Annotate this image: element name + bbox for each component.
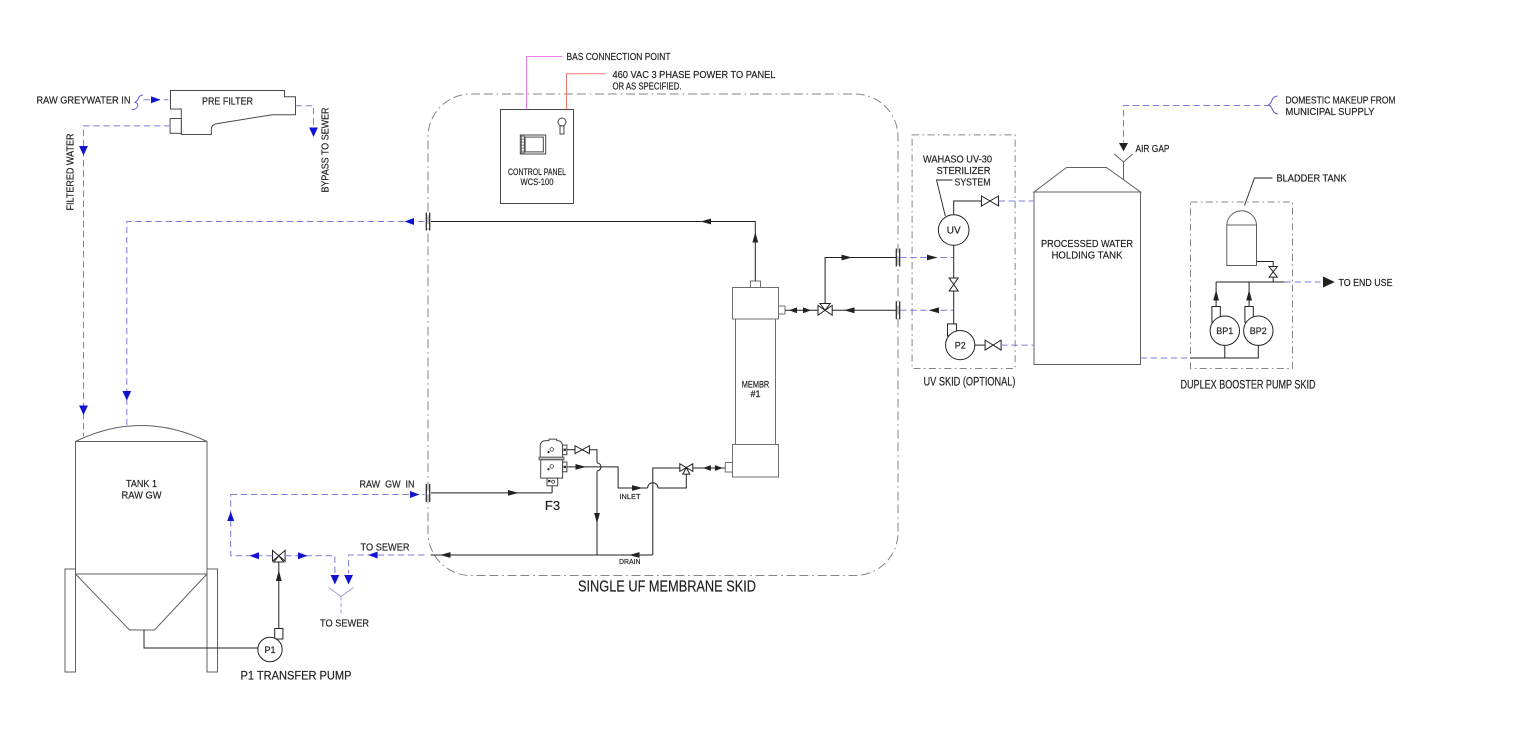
pipe break symbol at raw greywater inlet <box>132 95 143 110</box>
svg-text:DOMESTIC MAKEUP FROM: DOMESTIC MAKEUP FROM <box>1286 96 1396 107</box>
label: DOMESTIC MAKEUP FROM MUNICIPAL SUPPLY <box>1286 96 1396 119</box>
processed water holding tank <box>1034 168 1141 365</box>
valve: UV line check valve (vertical) <box>949 278 958 291</box>
wire: valve to tank return (blue dashed) <box>227 495 272 560</box>
svg-text:DUPLEX BOOSTER PUMP SKID: DUPLEX BOOSTER PUMP SKID <box>1181 380 1316 392</box>
svg-text:SINGLE UF MEMBRANE SKID: SINGLE UF MEMBRANE SKID <box>578 579 756 596</box>
pre-filter body <box>170 91 295 135</box>
svg-text:MEMBR: MEMBR <box>742 380 770 390</box>
wire: 460VAC power (red) <box>567 74 606 110</box>
wire: drain header <box>431 552 653 558</box>
svg-text:P1 TRANSFER PUMP: P1 TRANSFER PUMP <box>241 671 352 683</box>
wire: P2 discharge <box>975 344 985 346</box>
wire: filtered water to tank (blue dashed) <box>79 126 170 437</box>
label: BLADDER TANK with leader <box>1245 174 1347 206</box>
wire: BP1 riser <box>1212 282 1220 322</box>
wire: drain from inlet valve <box>653 468 680 555</box>
tank T1 raw greywater <box>65 426 218 673</box>
svg-text:WCS-100: WCS-100 <box>521 177 554 187</box>
air gap funnel on tank <box>1114 154 1133 180</box>
svg-text:DRAIN: DRAIN <box>619 557 641 566</box>
label: TO END USE <box>1339 278 1393 289</box>
label: P1 TRANSFER PUMP <box>241 671 352 683</box>
valve: flush isolation valve <box>575 446 589 454</box>
svg-text:FILTERED WATER: FILTERED WATER <box>66 134 77 211</box>
wire: holding tank to booster skid (blue dashed) <box>1141 357 1191 359</box>
wire: bypass to sewer (blue dashed) <box>296 106 318 137</box>
wire: UV vertical pipe <box>953 245 955 331</box>
wire: F3 bottom output (inlet line) <box>567 464 686 491</box>
svg-text:HOLDING TANK: HOLDING TANK <box>1052 251 1123 262</box>
wire: valve to sewer branch (blue dashed) <box>285 552 339 584</box>
label: UV SKID (OPTIONAL) <box>924 377 1016 389</box>
svg-text:PROCESSED WATER: PROCESSED WATER <box>1041 239 1133 250</box>
air gap arrow <box>1119 143 1128 151</box>
svg-text:OR AS SPECIFIED.: OR AS SPECIFIED. <box>613 82 682 93</box>
wire: flush line down to drain <box>589 450 601 555</box>
pump BP2 <box>1244 316 1273 345</box>
arrow: to end use <box>1323 277 1335 288</box>
flange at backwash return <box>896 301 899 319</box>
svg-text:TO SEWER: TO SEWER <box>361 543 410 554</box>
svg-text:TO END USE: TO END USE <box>1339 278 1393 289</box>
wire: backwash out of UV skid (blue dashed) <box>900 307 954 313</box>
svg-text:STERILIZER: STERILIZER <box>937 166 991 177</box>
label: BYPASS TO SEWER (vertical) <box>321 108 332 193</box>
label: SINGLE UF MEMBRANE SKID <box>578 579 756 596</box>
svg-text:WAHASO UV-30: WAHASO UV-30 <box>923 155 992 166</box>
wire: permeate riser from membrane top <box>431 219 758 281</box>
wire: tank outlet to P1 suction <box>144 630 258 648</box>
svg-text:P1: P1 <box>264 645 275 655</box>
svg-text:CONTROL PANEL: CONTROL PANEL <box>508 167 566 177</box>
svg-text:RAW GW IN: RAW GW IN <box>360 480 415 491</box>
svg-text:UV: UV <box>947 226 961 237</box>
svg-text:RAW GW: RAW GW <box>122 491 163 502</box>
label: TO SEWER (funnel) <box>320 619 369 630</box>
control panel U1 <box>501 110 574 204</box>
wire: inlet valve to membrane port <box>693 465 726 471</box>
UV skid boundary <box>912 135 1015 369</box>
label: 460 VAC 3 PHASE POWER TO PANEL <box>613 70 776 93</box>
label: F3 <box>545 498 560 513</box>
svg-text:460 VAC 3 PHASE POWER TO PANEL: 460 VAC 3 PHASE POWER TO PANEL <box>613 70 776 81</box>
svg-text:AIR GAP: AIR GAP <box>1136 144 1170 155</box>
svg-text:BP1: BP1 <box>1216 326 1233 336</box>
label: TO SEWER (line) <box>361 543 410 554</box>
svg-text:INLET: INLET <box>620 492 641 501</box>
pump BP1 <box>1210 316 1239 345</box>
leader to UV unit <box>937 180 953 216</box>
wire: permeate return to tank (blue dashed) <box>122 218 424 426</box>
valve: UV outlet valve <box>982 196 999 206</box>
wire: BAS connection (magenta) <box>527 57 563 110</box>
wire: BP2 riser <box>1245 282 1253 322</box>
wire: P2 to holding tank (blue dashed) <box>1001 344 1034 346</box>
wire: domestic makeup (blue dashed) <box>1124 106 1271 143</box>
svg-text:TO SEWER: TO SEWER <box>320 619 369 630</box>
wire: membrane top port to backwash valve <box>785 307 818 313</box>
svg-text:#1: #1 <box>750 389 760 399</box>
wire: P1 discharge up to valve <box>276 562 282 629</box>
valve: 3-way at P1 discharge <box>273 551 286 563</box>
valve: bladder tank isolation (vertical) <box>1269 267 1277 278</box>
svg-text:P2: P2 <box>955 341 966 351</box>
wire: bladder tank to header <box>1257 262 1274 283</box>
pipe break symbol at domestic makeup <box>1269 96 1279 114</box>
svg-text:SYSTEM: SYSTEM <box>955 178 991 189</box>
svg-text:F3: F3 <box>545 498 560 513</box>
pump P2 <box>946 324 975 360</box>
wire: UV outlet to holding tank <box>954 201 982 215</box>
label: BAS CONNECTION POINT <box>567 52 671 63</box>
flange at filtrate outlet <box>896 249 899 267</box>
sewer funnel (air gap) <box>329 588 354 614</box>
wire: feed into UV skid (blue dashed) <box>900 255 954 261</box>
wire: raw gw in to skid (blue dashed) <box>231 491 425 498</box>
wire: filtrate to UV skid <box>825 255 896 304</box>
flange at skid permeate outlet <box>426 213 429 231</box>
label: RAW GREYWATER IN <box>37 96 131 107</box>
wire: valve to holding tank (blue dashed) <box>999 200 1035 202</box>
label: DUPLEX BOOSTER PUMP SKID <box>1181 380 1316 392</box>
bladder tank <box>1227 211 1257 266</box>
valve: membrane inlet 3-way <box>680 464 693 474</box>
label: FILTERED WATER (vertical) <box>66 134 77 211</box>
svg-text:BP2: BP2 <box>1250 326 1267 336</box>
valve: P2 discharge valve <box>985 340 1001 350</box>
label: AIR GAP <box>1136 144 1170 155</box>
wire: F3 top output to flush valve <box>567 449 575 451</box>
svg-text:BYPASS TO SEWER: BYPASS TO SEWER <box>321 108 332 193</box>
flange at skid inlet <box>426 484 429 502</box>
svg-text:PRE FILTER: PRE FILTER <box>202 97 253 108</box>
svg-text:UV SKID (OPTIONAL): UV SKID (OPTIONAL) <box>924 377 1016 389</box>
wire: raw greywater in (blue dashed) <box>144 96 169 103</box>
svg-text:BAS CONNECTION POINT: BAS CONNECTION POINT <box>567 52 671 63</box>
wire: raw gw feed inside skid <box>431 486 552 496</box>
valve: filtrate 3-way valve <box>818 304 832 316</box>
label: RAW GW IN <box>360 480 415 491</box>
label: INLET <box>620 492 641 501</box>
label: WAHASO UV-30 STERILIZER SYSTEM <box>923 155 992 189</box>
booster skid boundary <box>1191 202 1293 369</box>
svg-text:MUNICIPAL SUPPLY: MUNICIPAL SUPPLY <box>1286 107 1375 118</box>
wire: skid drain to sewer branch (blue dashed) <box>344 552 424 585</box>
svg-text:BLADDER TANK: BLADDER TANK <box>1277 174 1347 185</box>
label: DRAIN <box>619 557 641 566</box>
wire: backwash return from UV skid <box>832 307 896 313</box>
svg-text:RAW GREYWATER IN: RAW GREYWATER IN <box>37 96 131 107</box>
wire: booster suction header <box>1191 345 1259 358</box>
UV sterilizer unit <box>938 215 969 246</box>
valve F3 (solenoid valve assembly) <box>539 439 567 486</box>
membrane skid boundary (dash-dot rounded box) <box>428 94 898 576</box>
membrane vessel MEMBR #1 <box>725 281 785 477</box>
wire: discharge header <box>1216 281 1320 283</box>
pump P1 <box>258 629 283 662</box>
svg-text:TANK 1: TANK 1 <box>126 479 157 490</box>
